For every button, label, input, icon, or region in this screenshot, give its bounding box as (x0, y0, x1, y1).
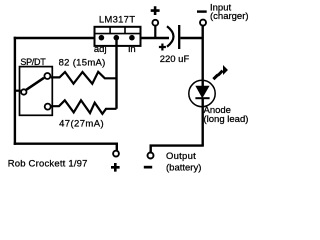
wire: bottom rail to output + terminal (14, 144, 117, 151)
svg-text:SP/DT: SP/DT (20, 57, 46, 67)
terminal: output - circle (148, 153, 154, 159)
wire: right rail lower (LED to output corner) (201, 99, 203, 146)
svg-text:Rob Crockett 1/97: Rob Crockett 1/97 (8, 158, 88, 169)
capacitor C1 straight plate (178, 25, 180, 49)
wire: left rail to switch common (14, 90, 21, 92)
wire: right rail upper (input - terminal down to LED) (201, 26, 203, 87)
terminal: input - circle (200, 20, 206, 26)
switch S1 lever (26, 78, 44, 90)
LED light arrow (213, 65, 228, 79)
wire: output - segment up to right rail (151, 146, 204, 153)
U1 pin in dot (129, 35, 135, 41)
wire: LM317 out to capacitor (141, 37, 170, 39)
switch S1 bottom contact circle (45, 104, 51, 110)
resistor R1 82 ohm zigzag (51, 72, 117, 84)
svg-text:47(27mA): 47(27mA) (59, 119, 104, 130)
LED D1 anode triangle (196, 86, 209, 97)
wire: LM317 out pin lead down to resistors (115, 40, 117, 109)
svg-text:(long lead): (long lead) (204, 114, 249, 125)
switch S1 common contact circle (21, 89, 26, 94)
terminal: output + circle (113, 151, 119, 157)
capacitor C1 curved plate (167, 26, 174, 46)
svg-text:in: in (128, 44, 135, 55)
svg-text:LM317T: LM317T (99, 14, 135, 25)
U1 pin adj dot (99, 35, 105, 41)
LED D1 cathode bar (195, 97, 209, 99)
wire: top-left horizontal from left rail to LM317 (14, 37, 95, 39)
label: input plus sign (151, 6, 160, 15)
switch S1 top contact circle (44, 73, 50, 79)
U1 pin out dot (114, 35, 120, 41)
svg-text:(battery): (battery) (166, 162, 201, 173)
terminal: input + circle with stem (152, 20, 158, 38)
label: output minus bar (144, 166, 152, 169)
wire: capacitor to right rail (180, 37, 202, 39)
svg-text:220 uF: 220 uF (160, 54, 190, 65)
svg-text:(charger): (charger) (210, 11, 249, 22)
svg-text:adj: adj (94, 44, 107, 55)
wire: left rail vertical (14, 37, 16, 145)
label: input minus bar (197, 10, 207, 12)
svg-text:Output: Output (166, 151, 196, 162)
resistor R2 47 ohm zigzag (51, 100, 117, 114)
svg-text:82 (15mA): 82 (15mA) (59, 57, 106, 68)
LED D1 circle (189, 80, 215, 106)
switch S1 box (20, 67, 53, 116)
regulator U1 LM317T package body (95, 27, 141, 46)
capacitor C1 polarity plus (159, 44, 166, 51)
label: output plus sign (111, 163, 120, 172)
